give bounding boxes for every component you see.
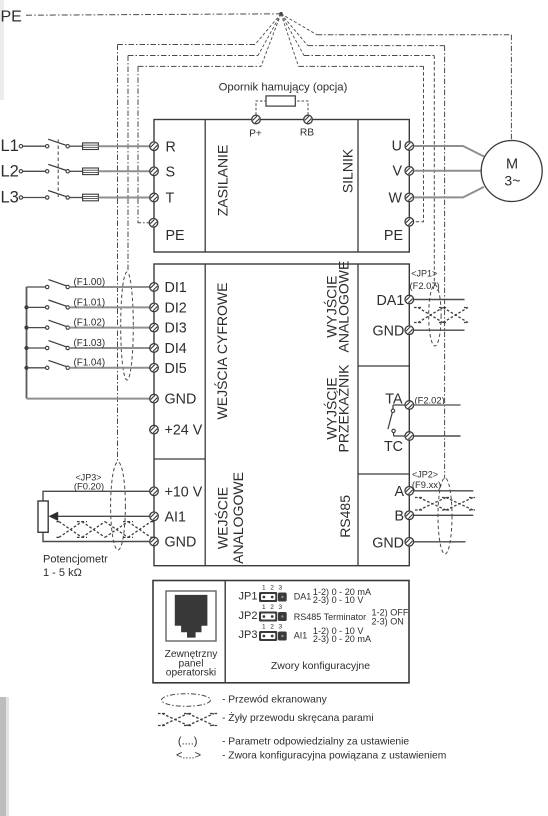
svg-text:JP2: JP2 (239, 610, 258, 622)
wire PE bus dash-dot (26, 14, 281, 15)
wire PE branch horizontal left 3 (138, 65, 261, 67)
switch DI2 stub (27, 306, 46, 308)
svg-text:- Parametr odpowiedzialny za u: - Parametr odpowiedzialny za ustawienie (222, 736, 409, 747)
svg-text:R: R (166, 139, 176, 155)
configuration box (153, 581, 409, 683)
svg-text:2-3) ON: 2-3) ON (372, 617, 404, 627)
terminal screw U (405, 142, 414, 151)
terminal screw DI5 (150, 364, 159, 373)
wire DI common rail (26, 287, 28, 399)
relay contact TA-TC (393, 404, 405, 406)
svg-text:- Żyły przewodu skręcana param: - Żyły przewodu skręcana parami (222, 711, 374, 724)
switch DI4 contacts (46, 346, 49, 349)
svg-text:DI1: DI1 (165, 280, 187, 296)
wire L2 to fuse (69, 170, 82, 172)
node L3 source circle (19, 196, 22, 199)
wire B RS485 (414, 514, 474, 516)
svg-text:ANALOGOWE: ANALOGOWE (336, 261, 352, 353)
wire TA output (414, 404, 461, 406)
svg-text:DA1: DA1 (294, 592, 312, 602)
svg-text:W: W (389, 190, 403, 206)
terminal screw RB (304, 115, 313, 124)
svg-text:RS485: RS485 (337, 495, 353, 538)
svg-text:Opornik hamujący (opcja): Opornik hamujący (opcja) (219, 82, 348, 94)
resistor brake dashed leads (256, 101, 266, 115)
wire PE fan diagonal left 1 (255, 14, 281, 45)
switch Q1 pole L2 contacts (46, 170, 49, 173)
switch Q1 pole L3 contacts (46, 196, 49, 199)
wire fuse to terminal S (98, 170, 150, 172)
svg-text:1 - 5 kΩ: 1 - 5 kΩ (43, 567, 82, 579)
svg-text:B: B (394, 509, 404, 525)
wire PE branch horizontal right 1 to motor (317, 34, 512, 36)
terminal screw DA1 (405, 295, 414, 304)
terminal screw B (405, 511, 414, 520)
terminal screw AI1 (150, 512, 159, 521)
wire PE branch horizontal left 2 (128, 55, 258, 57)
wire PE branch horizontal right 4 (299, 65, 424, 67)
svg-text:DA1: DA1 (376, 293, 404, 309)
switch DI5 stub (27, 367, 46, 369)
divider right terminal strip box2 (357, 264, 359, 566)
terminal screw DI4 (150, 344, 159, 353)
svg-text:P+: P+ (249, 129, 262, 140)
svg-text:(F2.02): (F2.02) (415, 395, 445, 406)
svg-text:GND: GND (165, 535, 197, 551)
wire DI3 to terminal (69, 327, 150, 329)
svg-text:DI5: DI5 (165, 361, 187, 377)
jumper JP3 icon pins 1-2-3 (259, 623, 287, 641)
scan shading left edge top (0, 0, 4, 100)
terminal screw S (150, 167, 159, 176)
switch DI1 blade (49, 280, 67, 286)
node L1 source circle (19, 145, 22, 148)
svg-text:GND: GND (165, 392, 197, 408)
svg-text:2-3) 0 - 20 mA: 2-3) 0 - 20 mA (313, 634, 372, 644)
svg-text:PE: PE (384, 228, 403, 244)
wire DI4 to terminal (69, 347, 150, 349)
terminal screw TC (405, 432, 414, 441)
svg-text:T: T (166, 191, 175, 207)
svg-text:+10 V: +10 V (165, 484, 203, 500)
wire PE branch horizontal left 1 (118, 44, 256, 46)
switch DI3 blade (49, 320, 67, 326)
I/O box (154, 264, 409, 566)
wire L3 to fuse (69, 197, 82, 199)
switch DI2 blade (49, 300, 67, 306)
svg-text:(F2.07): (F2.07) (409, 280, 439, 291)
twisted pair AI1/GND (55, 522, 155, 538)
svg-text:GND: GND (372, 535, 404, 551)
wire PE fan diagonal left 2 (258, 14, 281, 56)
svg-text:(F1.00): (F1.00) (74, 277, 106, 288)
wire GND common to terminal (27, 398, 151, 400)
svg-text:JP3: JP3 (239, 629, 258, 641)
wire L1 stub (23, 145, 46, 147)
svg-text:<....>: <....> (176, 750, 201, 762)
wire AI1 to wiper (58, 515, 150, 517)
svg-text:(F0.20): (F0.20) (74, 480, 104, 491)
svg-text:(....): (....) (178, 735, 198, 747)
wire PE branch horizontal right 3 (304, 55, 434, 57)
switch DI5 blade (49, 360, 67, 366)
wire PE vertical V4 to PE terminal of SILNIK (414, 66, 424, 221)
terminal screw PE left (149, 219, 158, 228)
terminal screw P+ (252, 115, 261, 124)
wire DA1 output (414, 299, 465, 301)
svg-text:AI1: AI1 (294, 631, 308, 641)
switch DI4 stub (27, 347, 46, 349)
wire PE branch horizontal right 2 (308, 45, 445, 47)
shield ellipse around DA1 wires (429, 285, 441, 346)
jumper JP1 icon pins 1-2-3 (259, 584, 287, 602)
svg-text:S: S (166, 164, 176, 180)
motor M 3~ (481, 141, 542, 202)
wire PE fan diagonal right 1 (281, 14, 317, 35)
svg-text:WEJŚCIA CYFROWE: WEJŚCIA CYFROWE (213, 283, 230, 420)
svg-text:PE: PE (1, 9, 22, 26)
wire PE fan diagonal right 2 (281, 14, 308, 46)
svg-text:RB: RB (300, 128, 314, 139)
terminal screw PE right (405, 218, 414, 227)
resistor brake body (266, 96, 295, 106)
jumper JP2 icon pins 1-2-3 (259, 604, 287, 622)
svg-text:DI3: DI3 (165, 321, 187, 337)
legend twisted pair symbol (158, 714, 218, 726)
svg-text:SILNIK: SILNIK (340, 148, 356, 193)
fuse F3 (83, 194, 99, 201)
junction dot DI2 rail (24, 305, 28, 309)
switch DI3 stub (27, 327, 46, 329)
legend shielded cable symbol (162, 694, 211, 707)
terminal screw A (405, 487, 414, 496)
wire PE vertical V5 to DA1 shield (433, 56, 435, 286)
terminal screw DI3 (150, 323, 159, 332)
potentiometer wiper arrow (49, 512, 59, 521)
svg-text:AI1: AI1 (165, 509, 187, 525)
switch DI1 stub (27, 286, 46, 288)
terminal screw GND analog (150, 537, 159, 546)
svg-text:DI4: DI4 (165, 341, 187, 357)
switch DI3 contacts (46, 326, 49, 329)
svg-text:ZASILANIE: ZASILANIE (214, 145, 230, 217)
wire L2 stub (23, 170, 46, 172)
terminal screw T (150, 193, 159, 202)
svg-text:M: M (506, 157, 518, 173)
switch DI4 blade (49, 341, 67, 347)
wire PE vertical V3 to PE terminal of ZASILANIE (138, 66, 150, 222)
scan shading left edge bottom (0, 697, 6, 816)
switch Q1 gang link (57, 140, 59, 198)
connector RJ45 jack silhouette (175, 595, 208, 638)
divider left terminal strip box2 (204, 264, 206, 566)
divider analog-out/relay right (358, 365, 409, 367)
terminal screw +24V (150, 425, 159, 434)
terminal screw GND analog out (405, 326, 414, 335)
wire PE vertical V1 to potentiometer shield (117, 45, 119, 463)
wire U to motor (414, 146, 484, 157)
switch DI5 contacts (46, 366, 49, 369)
terminal screw R (150, 142, 159, 151)
svg-text:RS485 Terminator: RS485 Terminator (294, 612, 366, 622)
svg-text:Potencjometr: Potencjometr (43, 554, 108, 566)
terminal screw V (405, 167, 414, 176)
svg-text:PE: PE (166, 228, 185, 244)
svg-text:L3: L3 (1, 188, 19, 206)
svg-text:<JP1>: <JP1> (411, 269, 437, 279)
wire V to motor (414, 170, 482, 172)
node L2 source circle (19, 170, 22, 173)
wire PE vertical V7 to motor frame (510, 35, 512, 141)
svg-text:(F1.02): (F1.02) (74, 318, 106, 329)
switch Q1 pole L1 contacts (46, 145, 49, 148)
junction dot DI5 rail (24, 366, 28, 370)
twisted pair A/B (415, 498, 475, 511)
switch Q1 pole L1 blade (48, 139, 66, 145)
svg-text:PRZEKAŹNIK: PRZEKAŹNIK (336, 364, 352, 453)
node PE star point (279, 12, 283, 16)
svg-text:TC: TC (384, 439, 403, 455)
wire L3 stub (23, 197, 46, 199)
terminal screw DI2 (150, 303, 159, 312)
svg-text:DI2: DI2 (165, 300, 187, 316)
wire W to motor (414, 187, 484, 198)
inverter power box ZASILANIE/SILNIK (154, 120, 409, 253)
wire fuse to terminal R (98, 145, 150, 147)
svg-text:(F9.xx): (F9.xx) (412, 479, 441, 490)
svg-text:WEJŚCIE: WEJŚCIE (214, 487, 231, 549)
svg-text:operatorski: operatorski (166, 668, 216, 679)
svg-text:GND: GND (373, 323, 405, 339)
svg-text:JP1: JP1 (239, 591, 258, 603)
svg-text:- Zwora konfiguracyjna powiąza: - Zwora konfiguracyjna powiązana z ustaw… (222, 751, 446, 762)
wire A RS485 (414, 490, 474, 492)
fuse F2 (83, 168, 99, 175)
svg-text:2-3) 0 - 10 V: 2-3) 0 - 10 V (313, 595, 364, 605)
switch Q1 pole L2 blade (48, 164, 66, 170)
divider operator panel cell (224, 581, 226, 683)
terminal screw GND digital (150, 394, 159, 403)
wire GND analog out (414, 329, 465, 331)
divider left terminal strip box1 (204, 120, 206, 253)
shield ellipse around potentiometer wires (111, 462, 126, 550)
svg-text:- Przewód ekranowany: - Przewód ekranowany (222, 694, 328, 705)
switch DI2 contacts (46, 306, 49, 309)
shield ellipse around RS485 wires (438, 478, 452, 554)
terminal screw DI1 (150, 283, 159, 292)
twisted pair DA1/GND (414, 308, 468, 323)
connector RJ45 external panel outline (166, 591, 216, 641)
wire PE fan diagonal right 3 (281, 14, 304, 56)
svg-text:Zwory konfiguracyjne: Zwory konfiguracyjne (271, 660, 370, 672)
wire GND to potentiometer bottom (43, 532, 150, 541)
wire L1 to fuse (69, 145, 82, 147)
potentiometer body (38, 501, 48, 532)
svg-text:A: A (394, 484, 404, 500)
switch DI1 contacts (46, 285, 49, 288)
svg-text:L2: L2 (1, 162, 19, 180)
wire PE fan diagonal left 3 (261, 14, 281, 67)
wire DI1 to terminal (69, 286, 150, 288)
junction dot DI3 rail (24, 326, 28, 330)
svg-text:U: U (392, 139, 402, 155)
divider digital/analog left (154, 458, 205, 460)
svg-text:V: V (392, 164, 402, 180)
terminal screw TA (405, 401, 414, 410)
divider relay/RS485 right (358, 473, 409, 475)
terminal screw +10V (150, 487, 159, 496)
terminal screw W (405, 193, 414, 202)
switch Q1 pole L3 blade (48, 191, 66, 197)
svg-text:3~: 3~ (504, 173, 520, 189)
svg-text:(F1.03): (F1.03) (74, 338, 106, 349)
fuse F1 (83, 143, 99, 150)
svg-text:ANALOGOWE: ANALOGOWE (230, 472, 246, 564)
wire PE vertical V2 to DI shield (127, 56, 129, 273)
wire +10V to potentiometer top (43, 491, 150, 501)
shield ellipse around DI wires (121, 272, 134, 380)
wire fuse to terminal T (98, 197, 150, 199)
junction dot DI4 rail (24, 346, 28, 350)
wire GND RS485 (414, 541, 466, 543)
svg-text:L1: L1 (1, 137, 19, 155)
wire TC output (414, 435, 461, 437)
wire PE vertical V6 to RS485 shield (444, 46, 446, 479)
wire DI2 to terminal (69, 306, 150, 308)
svg-text:+24 V: +24 V (165, 423, 203, 439)
wire DI5 to terminal (69, 367, 150, 369)
divider right terminal strip box1 (357, 120, 359, 253)
wire PE fan diagonal right 4 (281, 14, 299, 67)
svg-text:(F1.04): (F1.04) (74, 358, 106, 369)
svg-text:(F1.01): (F1.01) (74, 297, 106, 308)
terminal screw GND RS485 (405, 538, 414, 547)
